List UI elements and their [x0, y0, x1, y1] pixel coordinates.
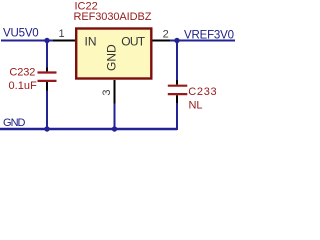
svg-text:2: 2	[163, 28, 169, 40]
svg-text:C233: C233	[188, 86, 216, 98]
wire C233 top lead (black)	[176, 80, 178, 85]
svg-text:GND: GND	[3, 117, 26, 129]
wire C233 lower net segment to GND rail	[176, 103, 177, 129]
capacitor C233 top plate	[168, 85, 188, 87]
svg-text:VU5V0: VU5V0	[3, 27, 39, 39]
svg-text:C232: C232	[9, 67, 35, 79]
svg-text:NL: NL	[189, 99, 203, 111]
wire GND rail	[0, 128, 177, 131]
wire VU5V0 net (left horizontal)	[1, 40, 53, 42]
wire pin 3 lead (black)	[114, 80, 116, 104]
wire C232 upper net segment	[46, 41, 48, 68]
wire pin 1 lead (black)	[53, 40, 76, 42]
wire VREF3V0 net (right horizontal)	[170, 40, 235, 42]
svg-text:1: 1	[58, 28, 64, 40]
svg-text:OUT: OUT	[121, 35, 145, 49]
node junction VREF3V0/C233	[174, 38, 179, 43]
wire C232 top lead (black)	[46, 68, 48, 72]
capacitor C233 bottom plate	[168, 93, 188, 95]
svg-text:3: 3	[101, 90, 113, 96]
node junction VU5V0/C232	[44, 38, 49, 43]
wire pin 3 net segment to GND rail	[114, 104, 116, 130]
IC IC22: REF3030AIDBZ voltage reference body	[76, 29, 151, 79]
wire C233 upper net segment	[176, 41, 178, 81]
svg-text:0.1uF: 0.1uF	[9, 80, 38, 92]
wire VREF3V0 pin 2 lead (black)	[152, 40, 170, 42]
svg-text:REF3030AIDBZ: REF3030AIDBZ	[74, 11, 152, 23]
wire C233 bottom lead (black)	[176, 95, 178, 103]
wire C232 lower net segment	[46, 91, 48, 130]
node junction C232/GND rail	[44, 126, 49, 131]
node junction pin3/GND rail	[112, 126, 117, 131]
capacitor C232 bottom plate	[38, 80, 57, 82]
svg-text:IN: IN	[85, 35, 97, 49]
capacitor C232 top plate	[38, 71, 57, 73]
wire C232 bottom lead (black)	[46, 82, 48, 91]
svg-text:GND: GND	[105, 44, 119, 71]
svg-text:VREF3V0: VREF3V0	[184, 30, 234, 42]
